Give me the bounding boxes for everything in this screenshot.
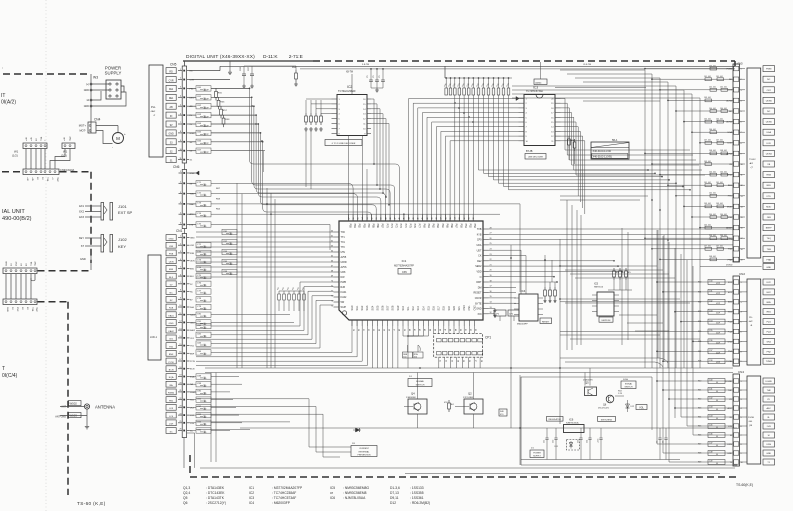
svg-text:Q1,3: Q1,3 bbox=[183, 486, 190, 490]
svg-text:8: 8 bbox=[180, 290, 181, 292]
svg-text:FTD: FTD bbox=[728, 196, 733, 198]
svg-text:P73: P73 bbox=[399, 224, 402, 229]
svg-text:SWITCH: SWITCH bbox=[625, 387, 633, 389]
wire bundle CN5 rows bbox=[189, 64, 743, 155]
svg-text:UDN5: UDN5 bbox=[766, 122, 773, 124]
svg-text:GND: GND bbox=[190, 238, 195, 240]
svg-text:: 2SC2712(Y): : 2SC2712(Y) bbox=[206, 501, 226, 505]
svg-text:11: 11 bbox=[179, 313, 181, 315]
svg-text:P75: P75 bbox=[408, 224, 411, 229]
svg-text:9V: 9V bbox=[170, 125, 173, 127]
svg-text:TX0: TX0 bbox=[341, 231, 346, 234]
svg-text:3: 3 bbox=[741, 302, 742, 304]
svg-text:TC74HC238AF: TC74HC238AF bbox=[338, 89, 356, 93]
svg-text:W3: W3 bbox=[93, 76, 98, 80]
svg-text:SIGNAL: SIGNAL bbox=[625, 382, 633, 385]
svg-text:00: 00 bbox=[716, 418, 718, 420]
wire bundle IC1 right pins out bbox=[489, 229, 734, 317]
svg-text:TMP: TMP bbox=[70, 136, 72, 141]
svg-text:UR8: UR8 bbox=[341, 271, 346, 274]
svg-text:T: T bbox=[2, 366, 5, 372]
svg-text:2: 2 bbox=[741, 292, 742, 294]
svg-text:CN4: CN4 bbox=[94, 118, 101, 122]
svg-text:CM2: CM2 bbox=[473, 305, 476, 311]
svg-text:55: 55 bbox=[358, 217, 360, 219]
svg-text:40: 40 bbox=[427, 217, 429, 219]
svg-text:18: 18 bbox=[179, 367, 181, 369]
svg-text:1: 1 bbox=[180, 69, 181, 71]
svg-text:S20: S20 bbox=[453, 306, 456, 311]
svg-text:GND: GND bbox=[169, 134, 174, 136]
svg-text:0 TO 9 LINE DECODER: 0 TO 9 LINE DECODER bbox=[332, 143, 356, 145]
svg-text:P70: P70 bbox=[385, 224, 388, 229]
svg-text:00: 00 bbox=[716, 400, 718, 402]
svg-text:TXB: TXB bbox=[46, 177, 48, 182]
svg-text:FTD: FTD bbox=[767, 196, 772, 198]
svg-text:ANT: ANT bbox=[61, 406, 66, 409]
svg-text:SG2: SG2 bbox=[361, 305, 364, 310]
svg-text:FNB: FNB bbox=[767, 259, 772, 261]
IC3 latch bbox=[516, 62, 561, 146]
motor M bbox=[96, 126, 126, 150]
svg-text:43: 43 bbox=[413, 217, 415, 219]
svg-text:2SC2712(Y): 2SC2712(Y) bbox=[598, 408, 609, 410]
svg-text:5: 5 bbox=[180, 104, 181, 106]
digital unit title bbox=[183, 54, 313, 61]
svg-text:S10: S10 bbox=[402, 306, 405, 311]
svg-text:C43: C43 bbox=[709, 407, 712, 409]
svg-text:R49: R49 bbox=[698, 462, 701, 464]
svg-text:DE1: DE1 bbox=[169, 98, 174, 100]
svg-text:IC6: IC6 bbox=[330, 496, 335, 500]
svg-text:C47 .001: C47 .001 bbox=[704, 140, 711, 142]
svg-text:P61: P61 bbox=[427, 224, 430, 229]
svg-text:19: 19 bbox=[179, 375, 181, 377]
connector PLL-1A/2 box bbox=[149, 65, 163, 157]
svg-text:24: 24 bbox=[179, 413, 181, 415]
svg-text:P66: P66 bbox=[450, 224, 453, 229]
label X4A SIGNAL SWITCH bbox=[621, 378, 636, 389]
svg-text:C41 .001: C41 .001 bbox=[716, 182, 723, 184]
svg-text:KEY: KEY bbox=[118, 244, 126, 249]
capacitors around IC6 bbox=[521, 368, 680, 460]
svg-text:4: 4 bbox=[180, 202, 181, 204]
svg-text:IAL UNIT: IAL UNIT bbox=[2, 209, 25, 215]
svg-text:R31: R31 bbox=[698, 291, 701, 293]
svg-text:C42 .001: C42 .001 bbox=[709, 193, 716, 195]
svg-text:EX2: EX2 bbox=[79, 211, 84, 214]
svg-text:KA02: KA02 bbox=[341, 296, 348, 299]
svg-text:33: 33 bbox=[450, 360, 452, 362]
board label TS-60 right bbox=[736, 483, 753, 487]
svg-text:FNB: FNB bbox=[728, 259, 733, 261]
svg-text:KEY: KEY bbox=[79, 237, 84, 240]
resistor array pullups bbox=[444, 66, 512, 95]
svg-text:S11: S11 bbox=[407, 306, 410, 311]
svg-text:SG6: SG6 bbox=[382, 305, 385, 310]
svg-text:CN1: CN1 bbox=[176, 229, 183, 233]
svg-text:+: + bbox=[124, 132, 126, 136]
svg-text:LVB: LVB bbox=[767, 426, 772, 428]
svg-text:C41 .001: C41 .001 bbox=[704, 76, 711, 78]
svg-text::: : bbox=[2, 65, 3, 70]
svg-text:6: 6 bbox=[180, 274, 181, 276]
svg-text:P77: P77 bbox=[418, 224, 421, 229]
svg-text:1: 1 bbox=[741, 381, 742, 383]
connector W5 lower strip bbox=[3, 299, 37, 312]
svg-text:(2/2): (2/2) bbox=[61, 154, 67, 158]
svg-text:P53: P53 bbox=[473, 224, 476, 229]
wire CN1 bottom to bus bbox=[184, 433, 195, 468]
svg-text:R37: R37 bbox=[698, 351, 701, 353]
svg-text:75: 75 bbox=[331, 305, 333, 307]
svg-text:: RD6.2M(B2): : RD6.2M(B2) bbox=[410, 501, 430, 505]
connector CN5 bbox=[166, 61, 195, 170]
power supply pins bbox=[84, 83, 126, 108]
svg-text:: 1SS361: : 1SS361 bbox=[410, 496, 424, 500]
svg-text:REGULATOR: REGULATOR bbox=[549, 418, 562, 421]
svg-text:UDN: UDN bbox=[190, 261, 195, 263]
wire bundle CN6 rows bbox=[189, 171, 520, 250]
wire bbox=[6, 274, 35, 299]
svg-text:O: O bbox=[480, 276, 482, 279]
svg-text:DGND: DGND bbox=[765, 381, 772, 383]
svg-text:14: 14 bbox=[179, 336, 181, 338]
svg-text:2: 2 bbox=[180, 243, 181, 245]
svg-text:KA01: KA01 bbox=[341, 291, 348, 294]
right field verticals bbox=[512, 70, 700, 368]
connector CN6 bbox=[173, 165, 195, 234]
svg-text:1.2K: 1.2K bbox=[618, 393, 623, 395]
svg-text:C53: C53 bbox=[578, 440, 580, 443]
svg-text:32: 32 bbox=[464, 217, 466, 219]
svg-text:5B.A: 5B.A bbox=[612, 139, 618, 142]
board label TS-60 bbox=[77, 501, 106, 506]
svg-text:7: 7 bbox=[180, 122, 181, 124]
svg-text:UDN5: UDN5 bbox=[726, 122, 733, 124]
svg-text:PLL: PLL bbox=[151, 105, 156, 109]
svg-text:P80: P80 bbox=[348, 224, 351, 229]
svg-text:P65: P65 bbox=[445, 224, 448, 229]
svg-text:C44 .001: C44 .001 bbox=[709, 214, 716, 216]
svg-text:IC1: IC1 bbox=[249, 486, 254, 490]
svg-text:CN2: CN2 bbox=[739, 272, 745, 276]
svg-text:D-11:K: D-11:K bbox=[263, 54, 278, 60]
svg-text:C40 .001: C40 .001 bbox=[720, 171, 727, 173]
svg-text:BEEP: BEEP bbox=[766, 228, 772, 230]
svg-text:FSB: FSB bbox=[169, 254, 174, 256]
svg-text:IN: IN bbox=[170, 116, 173, 118]
svg-text:R48: R48 bbox=[698, 453, 701, 455]
svg-text:: TC74HC238AF: : TC74HC238AF bbox=[272, 491, 296, 495]
svg-text:7: 7 bbox=[741, 341, 742, 343]
svg-text:7: 7 bbox=[180, 282, 181, 284]
resistor cluster R4x bbox=[277, 287, 305, 311]
svg-text:8: 8 bbox=[180, 131, 181, 133]
svg-text:PWB: PWB bbox=[341, 281, 347, 284]
resistors R54-R56 bbox=[608, 268, 632, 290]
node W3 bbox=[91, 74, 98, 133]
svg-text:PG/5B: PG/5B bbox=[748, 417, 755, 419]
svg-text:3: 3 bbox=[180, 87, 181, 89]
svg-text:R40: R40 bbox=[698, 381, 701, 383]
wire bundle CN1 lower rows bbox=[190, 312, 295, 434]
svg-text:X8-TM: X8-TM bbox=[346, 72, 353, 74]
svg-text:P64: P64 bbox=[441, 224, 444, 229]
svg-text:P52: P52 bbox=[469, 224, 472, 229]
svg-text:TXB: TXB bbox=[477, 228, 482, 231]
svg-text:RxB: RxB bbox=[190, 307, 195, 309]
svg-text:47: 47 bbox=[395, 217, 397, 219]
svg-text:GND: GND bbox=[476, 308, 482, 311]
wire bundle IC2 verticals down bbox=[306, 99, 390, 221]
svg-text:KYB: KYB bbox=[477, 233, 482, 236]
svg-text:9: 9 bbox=[180, 140, 181, 142]
wire IC1 pin 73 riser bbox=[367, 169, 405, 221]
svg-text:PSC: PSC bbox=[16, 261, 18, 266]
svg-text:P60: P60 bbox=[422, 224, 425, 229]
digital unit border bbox=[190, 61, 737, 477]
svg-text:TX1: TX1 bbox=[341, 241, 346, 244]
wire bundle IC3 left pins to IC1 top bbox=[409, 99, 519, 222]
svg-text:R32: R32 bbox=[698, 301, 701, 303]
svg-text:(1/2): (1/2) bbox=[12, 154, 18, 158]
svg-text:5.8-TM: 5.8-TM bbox=[362, 64, 369, 66]
IC1 bottom pins bbox=[351, 305, 476, 331]
svg-text:33: 33 bbox=[459, 217, 461, 219]
svg-text:CM1: CM1 bbox=[468, 305, 471, 311]
wire bundle long verticals left of IC1 bbox=[237, 151, 275, 368]
svg-text:Q4: Q4 bbox=[411, 392, 415, 396]
svg-text:ANT GND: ANT GND bbox=[55, 416, 66, 419]
svg-text:TT0: TT0 bbox=[341, 246, 346, 249]
svg-text:5: 5 bbox=[180, 267, 181, 269]
svg-text:16: 16 bbox=[741, 228, 743, 230]
svg-text:C49: C49 bbox=[709, 461, 712, 463]
svg-text:GND: GND bbox=[766, 453, 771, 455]
svg-text:PSC: PSC bbox=[16, 307, 18, 312]
connector J101 EXT SP bbox=[79, 203, 132, 221]
parts list bbox=[183, 486, 430, 505]
IC2 decoder bbox=[332, 72, 372, 136]
svg-text:11: 11 bbox=[180, 158, 182, 160]
svg-text:P71: P71 bbox=[390, 224, 393, 229]
svg-text:36: 36 bbox=[445, 217, 447, 219]
label 0 TO 9 LINE DECODER bbox=[325, 140, 362, 146]
svg-text:BLK: BLK bbox=[169, 277, 174, 279]
svg-text:2: 2 bbox=[741, 79, 742, 81]
svg-text:C40 .001: C40 .001 bbox=[709, 171, 716, 173]
svg-text:TSQ: TSQ bbox=[766, 238, 771, 240]
svg-text:RESET: RESET bbox=[542, 321, 550, 323]
svg-text:S12: S12 bbox=[412, 306, 415, 311]
svg-text:00: 00 bbox=[716, 382, 718, 384]
svg-text:C36: C36 bbox=[709, 340, 712, 342]
svg-text:P72: P72 bbox=[395, 224, 398, 229]
svg-text:KA01: KA01 bbox=[190, 314, 196, 317]
svg-text:USA: USA bbox=[766, 131, 771, 134]
svg-text:: 1SS355: : 1SS355 bbox=[410, 491, 424, 495]
wire bundle staircase fan bbox=[196, 282, 367, 366]
svg-text:(+): (+) bbox=[86, 83, 89, 86]
svg-text:00: 00 bbox=[716, 427, 718, 429]
svg-text:: DTA143TK: : DTA143TK bbox=[206, 496, 225, 500]
svg-text:ST: ST bbox=[81, 245, 85, 248]
svg-text:R42: R42 bbox=[698, 399, 701, 401]
connector W1 (2/2) bbox=[61, 136, 75, 158]
svg-text:SC: SC bbox=[190, 431, 193, 433]
svg-text:U5V: U5V bbox=[341, 251, 346, 254]
svg-text:C44 .001: C44 .001 bbox=[720, 108, 727, 110]
svg-text:BNF: BNF bbox=[169, 354, 174, 356]
svg-text:SUPPLY: SUPPLY bbox=[105, 71, 122, 76]
svg-text:C47 .001: C47 .001 bbox=[704, 246, 711, 248]
svg-text:S15: S15 bbox=[427, 306, 430, 311]
wire bbox=[38, 270, 92, 272]
svg-text:UCK: UCK bbox=[727, 143, 732, 145]
svg-text:Q2,4: Q2,4 bbox=[183, 491, 190, 495]
svg-text:ANTENNA: ANTENNA bbox=[95, 405, 115, 410]
svg-text:THF: THF bbox=[767, 390, 772, 392]
svg-text:RSM2: RSM2 bbox=[190, 392, 197, 394]
svg-text:AV55: AV55 bbox=[341, 256, 347, 259]
svg-text:: NJM78L05UA: : NJM78L05UA bbox=[343, 496, 366, 500]
svg-text:: DTA143EK: : DTA143EK bbox=[206, 486, 225, 490]
svg-text:30: 30 bbox=[473, 217, 475, 219]
svg-text:CL8-TM: CL8-TM bbox=[583, 64, 591, 66]
connector CN10A bbox=[23, 168, 75, 182]
svg-text:00: 00 bbox=[716, 445, 718, 447]
svg-text:LINE DECODER: LINE DECODER bbox=[528, 157, 544, 159]
svg-text:SG7: SG7 bbox=[387, 305, 390, 310]
svg-text:NM93C56: NM93C56 bbox=[594, 287, 604, 289]
svg-text:22: 22 bbox=[179, 398, 181, 400]
node GND bbox=[80, 256, 91, 270]
svg-text:4: 4 bbox=[741, 100, 742, 102]
svg-text:71: 71 bbox=[331, 285, 333, 287]
svg-text:C48 .001: C48 .001 bbox=[720, 150, 727, 152]
svg-text:SG1: SG1 bbox=[356, 305, 359, 310]
svg-text:CPU: CPU bbox=[402, 271, 407, 274]
resistor R53 bbox=[615, 391, 624, 397]
svg-text:IC2: IC2 bbox=[249, 491, 254, 495]
svg-text:LCD-1: LCD-1 bbox=[150, 336, 158, 339]
svg-text:26: 26 bbox=[179, 429, 181, 431]
svg-text:SEN2: SEN2 bbox=[475, 265, 482, 268]
svg-text:NC: NC bbox=[729, 111, 733, 113]
svg-text:15: 15 bbox=[179, 344, 181, 346]
svg-text:CURRENT: CURRENT bbox=[359, 448, 370, 450]
svg-text:BT-3B: BT-3B bbox=[526, 151, 533, 153]
svg-text:DMT: DMT bbox=[476, 281, 482, 284]
svg-text:C41: C41 bbox=[709, 389, 712, 391]
svg-text:5: 5 bbox=[741, 111, 742, 113]
svg-text:USA: USA bbox=[728, 131, 733, 134]
svg-text:42: 42 bbox=[418, 217, 420, 219]
svg-text:C48 .001: C48 .001 bbox=[709, 150, 716, 152]
svg-text:Q5: Q5 bbox=[183, 496, 188, 500]
svg-text:TX-RX: TX-RX bbox=[749, 159, 756, 161]
svg-text:37: 37 bbox=[474, 360, 476, 362]
svg-text:C51: C51 bbox=[544, 440, 546, 443]
connector CN4 right bbox=[726, 370, 775, 466]
svg-text:: 1SS133: : 1SS133 bbox=[410, 486, 424, 490]
svg-text:GN2: GN2 bbox=[766, 341, 771, 343]
svg-text:SWITCHING: SWITCHING bbox=[601, 419, 613, 421]
svg-text:1: 1 bbox=[180, 236, 181, 238]
svg-text:IC4: IC4 bbox=[521, 289, 526, 293]
svg-text:R30: R30 bbox=[698, 282, 701, 284]
svg-text:R45: R45 bbox=[698, 426, 701, 428]
svg-text:KA02: KA02 bbox=[168, 330, 174, 333]
bus lines bbox=[200, 368, 737, 474]
svg-text:C35: C35 bbox=[709, 330, 712, 332]
svg-text:C45 .001: C45 .001 bbox=[704, 118, 711, 120]
svg-text:: M62003FP: : M62003FP bbox=[272, 501, 291, 505]
svg-text:C37: C37 bbox=[709, 350, 712, 352]
svg-text:UDN5: UDN5 bbox=[726, 100, 733, 102]
svg-text:EXT SP: EXT SP bbox=[118, 210, 132, 215]
svg-text:P50: P50 bbox=[459, 224, 462, 229]
IC1 top pins bbox=[348, 215, 476, 229]
label LINE DECODER bbox=[525, 151, 546, 159]
svg-text:CK: CK bbox=[478, 255, 482, 258]
svg-text:DTA143TK: DTA143TK bbox=[583, 379, 593, 382]
svg-text:TMP: TMP bbox=[35, 261, 37, 266]
svg-text:C34: C34 bbox=[709, 320, 712, 322]
wire bundle IC3 right pins bbox=[555, 88, 705, 215]
right resistor field top bbox=[644, 65, 733, 260]
svg-text:NC: NC bbox=[767, 111, 771, 113]
svg-text:UDN5: UDN5 bbox=[766, 100, 773, 102]
wire bbox=[2, 172, 91, 263]
unit label C/4 bbox=[2, 366, 18, 379]
svg-text:TXNB: TXNB bbox=[766, 361, 772, 363]
connector W1 (1/2) bbox=[12, 136, 47, 157]
regulator IC6 bbox=[547, 417, 616, 433]
svg-text:4: 4 bbox=[741, 312, 742, 314]
svg-text:J102: J102 bbox=[118, 237, 127, 242]
wire resistor drops bbox=[455, 95, 691, 221]
svg-text:X4.A: X4.A bbox=[623, 378, 628, 381]
svg-text:S17: S17 bbox=[438, 306, 441, 311]
svg-text:P87: P87 bbox=[381, 224, 384, 229]
svg-text:: DTC143EK: : DTC143EK bbox=[206, 491, 225, 495]
svg-text:NC: NC bbox=[190, 292, 194, 294]
svg-text:X46-3162-11(YB): X46-3162-11(YB) bbox=[593, 155, 612, 158]
svg-text:C42 .001: C42 .001 bbox=[709, 87, 716, 89]
transistor Q6 bbox=[598, 395, 614, 409]
svg-text:P83: P83 bbox=[362, 224, 365, 229]
svg-text:VDD: VDD bbox=[476, 271, 481, 274]
IC1 microcontroller M37702 bbox=[339, 221, 483, 320]
svg-text:3: 3 bbox=[741, 90, 742, 92]
svg-text:TSB: TSB bbox=[767, 249, 772, 251]
svg-text:EEPROM: EEPROM bbox=[602, 320, 611, 322]
svg-text:CE2: CE2 bbox=[477, 260, 482, 263]
svg-text:34: 34 bbox=[456, 360, 458, 362]
svg-text:C44: C44 bbox=[709, 416, 712, 418]
svg-text:C43 .001: C43 .001 bbox=[704, 203, 711, 205]
svg-text:RSM2: RSM2 bbox=[168, 393, 175, 395]
svg-text:GND: GND bbox=[766, 267, 771, 269]
svg-text:C45: C45 bbox=[709, 425, 712, 427]
svg-text:41: 41 bbox=[422, 217, 424, 219]
transistor Q2 bbox=[444, 373, 483, 429]
svg-text:GND: GND bbox=[6, 261, 8, 266]
svg-text:1: 1 bbox=[180, 171, 181, 173]
svg-text:34: 34 bbox=[455, 217, 457, 219]
